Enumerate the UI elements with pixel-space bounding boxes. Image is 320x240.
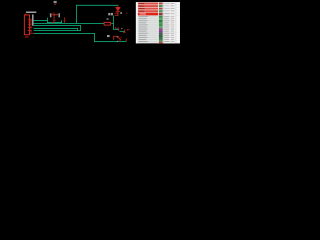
diode D2 bar xyxy=(123,31,126,34)
transistor T1 base lead xyxy=(117,36,120,39)
connector J1 pin 3 xyxy=(28,21,32,24)
resistor R1 body xyxy=(104,22,110,25)
selected row text xyxy=(140,13,147,16)
crystal Q1 body bar xyxy=(52,13,58,16)
wire net T top horizontal xyxy=(76,4,118,7)
diode D1 triangle xyxy=(116,7,121,10)
wire net A vertical tee xyxy=(46,18,49,23)
switch S1 right side xyxy=(117,13,120,16)
wire net 4 horizontal xyxy=(34,27,78,30)
wire net B horizontal left xyxy=(34,22,104,25)
checkbox column xyxy=(176,3,179,42)
right panel background xyxy=(136,2,180,43)
junction gray dot 1 xyxy=(117,28,118,29)
capacitor C1 green lead up xyxy=(60,21,63,23)
transistor T1 collector dash xyxy=(120,36,122,39)
switch S1 upper contact xyxy=(115,12,119,15)
wire net L long horizontal xyxy=(34,32,95,35)
connector J1 pin 11 xyxy=(30,32,34,35)
wire net B right segment xyxy=(112,22,115,25)
crystal Q1 right plate xyxy=(58,13,60,17)
pin tick above wire C xyxy=(114,27,117,29)
transistor T1 body top xyxy=(113,35,117,38)
transistor T1 body left xyxy=(112,36,115,40)
wire net D stub xyxy=(120,30,125,33)
red row 2 xyxy=(138,5,158,7)
red row 4 xyxy=(138,10,158,12)
connector J1 pin 7 xyxy=(28,26,32,29)
red row 1 xyxy=(138,3,158,5)
second text dashes xyxy=(171,3,175,42)
canvas background xyxy=(0,0,180,47)
capacitor C2 red lead xyxy=(63,17,66,23)
right column rows xyxy=(164,3,170,42)
wire net 3 horizontal xyxy=(34,24,81,27)
panel white gap column xyxy=(158,2,159,43)
crystal Q1 top tick left xyxy=(51,12,54,15)
row separators lower zone xyxy=(138,17,158,42)
resistor R1 label xyxy=(107,18,109,19)
wire net L bottom horizontal xyxy=(94,40,126,43)
switch S1 right label xyxy=(120,12,122,14)
resistor R1 right stub xyxy=(111,22,112,25)
panel left white strip xyxy=(136,2,138,43)
connector J1 value label xyxy=(32,14,34,25)
crystal Q1 left plate xyxy=(50,13,52,17)
red row 3 text xyxy=(139,7,145,10)
transistor T1 emitter arrow xyxy=(119,38,122,41)
connector J1 pin 6 xyxy=(29,25,32,28)
selected red row xyxy=(138,13,158,16)
switch S1 lower contact xyxy=(115,14,119,17)
left column text dashes xyxy=(139,16,149,41)
red row 1 text xyxy=(139,2,145,5)
transistor T1 gray dot xyxy=(117,36,118,37)
red dash on bottom wire xyxy=(119,40,121,43)
part mark right red L xyxy=(126,29,129,31)
part X2 red mark xyxy=(54,3,56,6)
diode D1 top lead xyxy=(117,5,120,8)
crystal Q1 pin down xyxy=(53,18,56,22)
connector J1 pin 10 xyxy=(29,30,32,33)
connector J1 top stub xyxy=(24,14,27,15)
junction gray dot 2 xyxy=(121,28,122,29)
diode D2 lead xyxy=(123,29,126,32)
wire net L vertical drop xyxy=(93,33,96,42)
connector J1 pin 4 xyxy=(29,22,32,25)
transistor T1 body right xyxy=(116,37,119,39)
connector J1 pin 1 xyxy=(28,18,32,21)
wire lower run xyxy=(47,21,62,24)
part X2 label top xyxy=(54,1,57,3)
capacitor C2 top bar xyxy=(63,20,65,23)
crystal Q1 crossbar xyxy=(53,19,56,22)
panel right zone xyxy=(163,2,180,43)
red row 3 xyxy=(138,8,158,10)
crystal Q1 center stem xyxy=(53,13,56,19)
wire net 5 horizontal xyxy=(34,29,81,32)
transistor T1 label xyxy=(107,35,110,37)
icon column strip xyxy=(159,3,163,44)
connector J1 name label xyxy=(26,12,36,13)
wire net V-B vertical xyxy=(112,16,115,30)
red row 2 text xyxy=(139,5,144,8)
switch S1 left label xyxy=(108,13,110,15)
red row 4 text xyxy=(139,10,144,13)
part mark right red dash xyxy=(127,28,129,31)
connector J1 value text below xyxy=(25,36,29,39)
wire net A horizontal xyxy=(34,19,48,22)
wire net C elbow horizontal xyxy=(113,28,118,31)
column separator line 1 xyxy=(162,2,164,43)
wire net 4 vertical drop xyxy=(76,28,79,31)
wire net 3 vertical drop xyxy=(79,25,82,31)
connector J1 pin 8 xyxy=(29,28,32,31)
gray dot on bottom wire xyxy=(117,41,118,42)
connector J1 pin 2 xyxy=(29,19,32,22)
red overlay on lower run xyxy=(52,21,55,24)
crystal Q1 top tick right xyxy=(56,12,59,15)
transistor Q2 collector lead xyxy=(117,27,120,31)
connector J1 body xyxy=(24,15,29,35)
connector J1 pin 5 xyxy=(28,23,32,26)
lead from bottom wire up xyxy=(125,38,128,41)
column separator line 2 xyxy=(175,2,177,43)
wire net T vertical xyxy=(75,5,78,24)
net label red dot right xyxy=(125,13,128,14)
connector J1 pin 9 xyxy=(28,29,32,32)
diode D1 cathode bar xyxy=(116,10,121,13)
panel top white zone xyxy=(138,2,180,15)
diode D1 bottom lead xyxy=(117,12,120,13)
